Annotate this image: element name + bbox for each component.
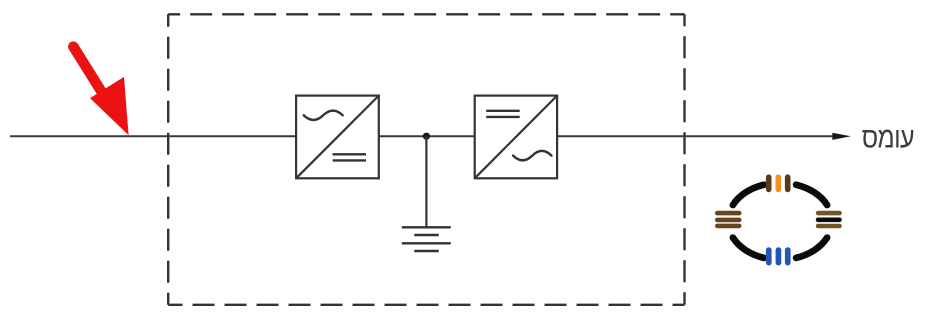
converter U1 (AC/DC rectifier) body	[296, 96, 379, 179]
logo: right bars (brown / black / brown)	[816, 211, 842, 229]
logo: circular emblem arcs	[733, 185, 827, 258]
converter U2 AC sine symbol	[513, 151, 551, 160]
logo: left bars (brown)	[715, 211, 742, 228]
wire: AC output line to load	[557, 135, 833, 137]
ground symbol	[402, 227, 451, 251]
logo: top bars (brown / orange / brown)	[766, 174, 791, 192]
wire: DC link between converters	[379, 135, 475, 137]
logo: bottom bars (blue)	[766, 247, 791, 265]
svg-text:עומס: עומס	[862, 121, 914, 154]
red annotation arrow	[73, 47, 128, 136]
converter U1 DC bars symbol	[333, 153, 366, 155]
dashed enclosure box (UPS boundary)	[168, 14, 684, 305]
arrowhead: output arrow	[832, 133, 851, 140]
converter U2 (DC/AC inverter) body	[475, 96, 557, 179]
node: DC link junction dot	[423, 133, 430, 140]
wire: AC input line	[10, 135, 296, 137]
converter U2 diagonal	[475, 96, 557, 179]
converter U1 AC sine symbol	[304, 111, 343, 120]
converter U1 diagonal	[296, 96, 379, 179]
converter U2 DC bars symbol	[486, 110, 520, 112]
wire: junction to ground	[425, 136, 427, 227]
